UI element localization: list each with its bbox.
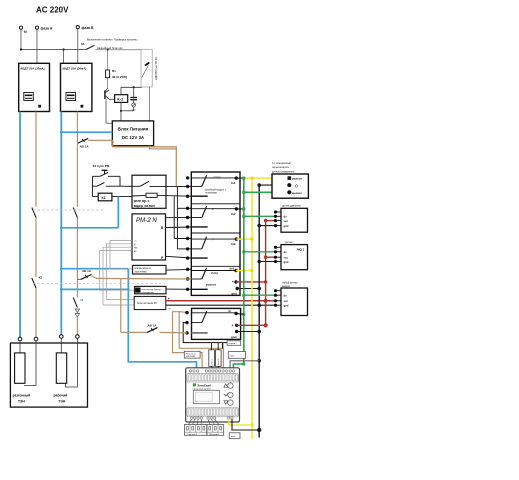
- ssr module 2: [215, 350, 221, 367]
- svg-text:оптронами: оптронами: [205, 193, 217, 195]
- svg-text:ручного управления: ручного управления: [272, 171, 295, 174]
- 5V power supply box: [134, 296, 170, 310]
- bus bracket B: [174, 196, 191, 238]
- svg-text:S2 пуск РМ: S2 пуск РМ: [93, 164, 110, 168]
- resistor R1: [106, 50, 127, 79]
- svg-text:рабочий: рабочий: [54, 394, 68, 398]
- wire yellow In1 to switch: [244, 177, 289, 179]
- svg-text:К-1: К-1: [117, 96, 124, 101]
- controller fan wires to terminal blocks: [189, 419, 220, 424]
- breaker АВ 1А no.2: [77, 269, 91, 279]
- wire K-1 top node: [121, 86, 142, 94]
- wire tan L2 lower segment: [76, 317, 78, 335]
- bus bracket A common: [177, 186, 191, 249]
- svg-text:датчик: датчик: [285, 241, 293, 244]
- wire tan B from power supply joining tan A: [150, 146, 177, 149]
- contact K1 self-hold: [92, 183, 120, 187]
- heater internal wires: [20, 338, 77, 387]
- wire to section2 pin2: [166, 216, 192, 218]
- wire tan to controller right: [179, 333, 223, 368]
- contact K2 upper on L1: [32, 208, 36, 218]
- svg-text:фаза А: фаза А: [41, 27, 53, 31]
- wire N down: [20, 29, 22, 49]
- breaker АВДТ 25А box1: [19, 63, 50, 111]
- svg-text:3-х позиционный: 3-х позиционный: [272, 162, 291, 165]
- svg-text:переключатель: переключатель: [272, 166, 290, 169]
- svg-text:ТЭН осн.1: ТЭН осн.1: [187, 434, 198, 436]
- svg-text:gnd: gnd: [284, 260, 289, 264]
- bus red vertical: [265, 221, 267, 326]
- wire tan L1 from box1 upper segment: [35, 112, 37, 207]
- contact K2 lower on L2: [73, 298, 84, 318]
- sensor 2 wires: [244, 252, 276, 262]
- wire фаза A down: [36, 29, 38, 63]
- wire PM-2 B output: [166, 226, 192, 229]
- svg-text:АВДТ 25А (30мА): АВДТ 25А (30мА): [62, 67, 86, 71]
- green bus junction dots: [242, 177, 245, 366]
- svg-text:12В 220В: 12В 220В: [186, 356, 196, 358]
- svg-text:блок питания 5V: блок питания 5V: [137, 301, 157, 305]
- power regulator РМ-2: [132, 214, 166, 260]
- capacitor C1: [130, 87, 137, 103]
- wire red 5V+ long: [166, 300, 276, 302]
- svg-text:ТЭН разг.1: ТЭН разг.1: [209, 434, 220, 436]
- svg-text:вынос: вынос: [292, 191, 302, 195]
- breaker АВ 1А no.1: [78, 138, 89, 148]
- svg-text:К2: К2: [39, 276, 43, 280]
- wire aux In green: [236, 313, 244, 316]
- diode VD1: [120, 103, 137, 112]
- svg-text:+: +: [232, 280, 234, 284]
- svg-text:датчик давления: датчик давления: [282, 205, 301, 208]
- heater tank box: [10, 343, 87, 407]
- left pin dots of module: [186, 176, 189, 291]
- wire tan net at aux relay: pin1 riser: [179, 312, 187, 333]
- valve box клапан: [133, 265, 192, 274]
- svg-text:ЭлекСнаб: ЭлекСнаб: [197, 383, 211, 387]
- svg-text:vcc: vcc: [284, 300, 289, 303]
- svg-text:ТЭН: ТЭН: [18, 400, 25, 404]
- switch S2 пуск РМ: [93, 164, 110, 177]
- wire blue N from box1 down to heater terminal: [19, 112, 21, 338]
- relay contact small box: [184, 351, 200, 358]
- terminal фаза A: [35, 26, 52, 30]
- bus green vertical: [243, 178, 245, 364]
- svg-text:In1: In1: [231, 181, 236, 185]
- wire black 5V- long: [166, 304, 276, 306]
- svg-text:реле: реле: [230, 355, 235, 357]
- wire aux gnd black: [237, 331, 260, 333]
- svg-text:gnd: gnd: [284, 224, 289, 228]
- svg-text:реле вр. с: реле вр. с: [134, 199, 150, 203]
- wire tan C from AB1A2 down: [92, 276, 192, 279]
- svg-text:АВДТ 25А (30мА): АВДТ 25А (30мА): [20, 67, 44, 71]
- wire emitter to power supply left: [106, 99, 112, 123]
- svg-text:gnd: gnd: [284, 304, 289, 308]
- svg-text:AC 220V: AC 220V: [36, 6, 69, 15]
- svg-text:разгон: разгон: [206, 283, 216, 287]
- wire tan L2 middle segment: [76, 218, 78, 298]
- heater terminals: [18, 335, 79, 341]
- svg-text:R1: R1: [112, 69, 116, 73]
- svg-text:Блок Питания: Блок Питания: [118, 127, 149, 132]
- wire yellow controller out: [229, 419, 252, 425]
- terminal фаза B: [76, 26, 94, 30]
- svg-text:релейный модуль с: релейный модуль с: [205, 189, 227, 192]
- svg-text:Реле конт.: Реле конт.: [186, 353, 196, 355]
- wire tan L1 lower segment: [35, 288, 37, 337]
- svg-text:−: −: [169, 306, 171, 310]
- wire blue lower link: [60, 288, 130, 291]
- wire In1 stub: [236, 177, 244, 179]
- sensor 3 box любой датчик: [274, 281, 308, 315]
- wire S1 to R1 node: [95, 49, 141, 51]
- svg-text:In4: In4: [230, 266, 235, 270]
- wire to time relay upper: [120, 185, 132, 187]
- svg-text:АВ 1А: АВ 1А: [82, 269, 92, 273]
- svg-text:+: +: [232, 324, 234, 328]
- svg-text:Аварийный блок пос.: Аварийный блок пос.: [97, 46, 124, 50]
- terminal N: [19, 26, 27, 34]
- svg-text:РМ2Д: РМ2Д: [211, 272, 218, 275]
- svg-text:do: do: [284, 215, 288, 219]
- aux relay box: [183, 308, 240, 342]
- wire In4 yellow: [236, 270, 252, 272]
- svg-text:vcc: vcc: [284, 257, 289, 260]
- svg-text:S1: S1: [81, 42, 85, 46]
- signal bundle РМ-2 to aux modules: [100, 240, 135, 305]
- svg-text:In: In: [229, 309, 232, 313]
- relay coil К-1: [115, 95, 128, 103]
- svg-text:ЗМ: ЗМ: [134, 247, 137, 249]
- terminal block left: [185, 425, 207, 437]
- wire aux + red: [237, 324, 266, 326]
- svg-text:Включение питания / Проверка к: Включение питания / Проверка колонны: [87, 38, 137, 42]
- sensor 1 wires: [244, 216, 276, 225]
- opto relay module main box: [191, 172, 240, 295]
- svg-text:аварии: аварии: [282, 285, 291, 288]
- dashed link upper K2: [33, 209, 104, 211]
- wire blue to controller: [60, 267, 197, 371]
- manual mode switch box: [272, 162, 308, 198]
- svg-text:КД0788 (на ТС N): КД0788 (на ТС N): [154, 57, 158, 80]
- svg-text:ТЭН: ТЭН: [59, 400, 66, 404]
- sensor 3 wires: [244, 294, 276, 296]
- svg-text:gnd: gnd: [231, 335, 237, 339]
- wire blue DC to K1 node: [60, 196, 118, 229]
- module right pins: [230, 176, 239, 295]
- transistor Q1: [105, 78, 115, 100]
- svg-text:do: do: [284, 294, 288, 298]
- section 1 contact: [191, 175, 236, 196]
- svg-text:клапан воды от: клапан воды от: [135, 268, 152, 270]
- wire blue N from box2 down to heater terminal: [60, 112, 62, 335]
- wire In2 stub to green: [236, 208, 243, 210]
- svg-text:DC 12V 3А: DC 12V 3А: [122, 135, 145, 140]
- svg-text:gnd: gnd: [231, 292, 237, 296]
- ssr module 1: [209, 350, 215, 367]
- breaker АВДТ 25А box2: [61, 63, 92, 111]
- svg-text:разгонный: разгонный: [13, 394, 31, 398]
- switch S1: [81, 38, 137, 50]
- contact K2 upper on L2: [73, 208, 77, 218]
- wire PM-2 P output: [166, 256, 192, 258]
- contact K2 lower on L1: [32, 276, 43, 289]
- relay coil К1: [92, 193, 111, 201]
- wire tan L2 from box2 upper segment: [76, 112, 78, 207]
- wire K1 to time relay lower: [112, 195, 132, 197]
- svg-text:0: 0: [295, 183, 298, 188]
- svg-text:реле 1: реле 1: [212, 358, 214, 365]
- wire фаза B down: [77, 29, 79, 64]
- red bus junction dots: [264, 219, 268, 327]
- power supply Блок Питания: [112, 121, 153, 146]
- svg-text:АВ 1А: АВ 1А: [148, 324, 158, 328]
- svg-text:нагрев: нагрев: [229, 343, 236, 345]
- sensor 1 box датчик давления: [274, 205, 308, 233]
- wires S2 start circuit: [92, 176, 120, 196]
- section 3 contact: [191, 237, 236, 259]
- svg-text:К2: К2: [136, 289, 140, 293]
- wire tan to controller left: [173, 312, 203, 368]
- bus black vertical: [258, 185, 260, 437]
- black bus junction dots: [257, 183, 261, 432]
- controller unit: [186, 368, 240, 422]
- wire In3 yellow: [236, 238, 252, 240]
- section 4 contact: [191, 268, 236, 289]
- wire black bus to controller top: [230, 361, 259, 372]
- breaker АВ 1А no.3: [121, 324, 187, 333]
- svg-text:проточника: проточника: [135, 271, 148, 273]
- svg-text:In3: In3: [231, 242, 236, 246]
- svg-text:разгон: разгон: [292, 177, 302, 181]
- wire red module +: [236, 281, 266, 283]
- time relay box реле вр: [132, 175, 191, 208]
- section 2 contact: [191, 206, 236, 227]
- sensor label box bottom: [229, 433, 240, 439]
- svg-text:In2: In2: [231, 212, 236, 216]
- svg-text:РМ-2 N: РМ-2 N: [136, 217, 157, 224]
- svg-text:·: ·: [160, 216, 161, 220]
- svg-text:вентилятор (кулер): вентилятор (кулер): [142, 289, 162, 291]
- svg-text:охлаждения: охлаждения: [142, 292, 155, 294]
- svg-text:vcc: vcc: [284, 220, 289, 223]
- svg-text:АВ 1А: АВ 1А: [80, 145, 90, 149]
- wire N bus horizontal: [20, 48, 86, 50]
- wire blue 12V- horizontal to power supply: [60, 131, 112, 134]
- svg-text:датч.: датч.: [231, 436, 236, 438]
- wire tan A from AB1A under power supply to stop relay: [88, 140, 176, 186]
- wire green bus to controller top: [233, 364, 243, 372]
- bus yellow vertical: [251, 178, 253, 439]
- svg-text:do: do: [284, 250, 288, 254]
- terminal block right: [207, 425, 224, 437]
- svg-text:N: N: [24, 30, 27, 34]
- wire K-1 bottom to power supply: [120, 102, 122, 121]
- wire black controller out: [232, 419, 259, 430]
- svg-text:К1: К1: [102, 196, 106, 200]
- wire green switch bottom: [244, 191, 289, 193]
- wire tan L1 middle segment: [35, 218, 37, 278]
- thyristor module VS1 box: [141, 49, 158, 87]
- wire thyristor to power supply: [148, 87, 150, 121]
- svg-text:MQ 3: MQ 3: [297, 247, 305, 251]
- relay K2 fan box: [135, 286, 192, 294]
- wires ssr to aux box: [212, 343, 223, 370]
- small label box right upper: [227, 341, 241, 346]
- sensor 2 box MQ-3: [274, 241, 308, 270]
- wire N branch to box2: [63, 50, 65, 64]
- wire black switch middle: [259, 185, 289, 190]
- svg-text:задер. на вкл: задер. на вкл: [134, 204, 155, 208]
- dashed link lower K2: [33, 283, 165, 285]
- svg-text:реле 2: реле 2: [218, 358, 220, 365]
- wire black module gnd: [237, 288, 259, 290]
- svg-text:3К (0,25W): 3К (0,25W): [112, 75, 127, 79]
- small label box right lower: [228, 352, 245, 359]
- yellow bus junction dots: [251, 177, 254, 427]
- svg-text:фаза В: фаза В: [82, 26, 94, 30]
